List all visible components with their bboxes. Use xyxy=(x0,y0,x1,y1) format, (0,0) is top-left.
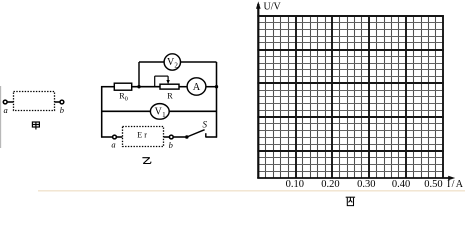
svg-text:U/V: U/V xyxy=(264,1,282,12)
svg-text:b: b xyxy=(60,105,64,115)
svg-text:r: r xyxy=(144,131,147,140)
label 乙 (CJK glyph drawn as path) xyxy=(142,158,151,164)
svg-text:E: E xyxy=(137,131,142,140)
y axis arrowhead xyxy=(256,1,261,8)
svg-text:R: R xyxy=(167,91,173,100)
voltmeter V1 xyxy=(150,104,169,120)
resistor R0 xyxy=(114,83,131,90)
x axis arrowhead xyxy=(448,176,455,181)
wire terminal b to switch xyxy=(173,136,185,138)
wire V2 branch: horizontal to V2 xyxy=(139,61,164,63)
grid minor lines xyxy=(266,16,436,179)
svg-text:0: 0 xyxy=(125,95,128,102)
svg-text:a: a xyxy=(111,140,115,150)
svg-text:0.30: 0.30 xyxy=(357,179,375,190)
wire bottom row: left vertical to terminal a xyxy=(101,136,113,138)
label 甲 (CJK glyph drawn as path) xyxy=(32,122,39,130)
wire R0 to rheostat xyxy=(132,86,160,88)
svg-text:0.20: 0.20 xyxy=(321,179,339,190)
terminal b of battery box xyxy=(169,135,173,139)
terminal a of battery box xyxy=(113,135,117,139)
wire main row: left vertical to R0 xyxy=(101,86,114,88)
wire switch to right vertical xyxy=(206,136,217,138)
voltmeter V2 xyxy=(164,54,180,70)
rheostat slider arm xyxy=(155,76,168,87)
svg-text:I/A: I/A xyxy=(447,179,464,190)
wire V2 to right vertical xyxy=(181,61,217,63)
svg-text:0.40: 0.40 xyxy=(392,179,410,190)
terminal a (left) xyxy=(3,100,13,104)
battery dashed box E r xyxy=(123,127,164,147)
wire ammeter to right vertical xyxy=(206,86,217,88)
wire V1 row left xyxy=(102,110,151,112)
scan artifact left edge line xyxy=(0,86,2,148)
svg-text:1: 1 xyxy=(162,111,166,119)
label 丙 (CJK glyph drawn as path) xyxy=(346,197,355,205)
svg-text:0.50: 0.50 xyxy=(424,179,442,190)
svg-text:A: A xyxy=(193,82,201,93)
svg-text:2: 2 xyxy=(174,62,178,70)
wire right vertical xyxy=(216,62,218,138)
junction node right xyxy=(215,85,218,88)
dashed box (black box component) xyxy=(14,92,55,111)
rheostat slider arrowhead xyxy=(166,80,169,84)
switch S blade xyxy=(187,130,205,137)
wire V1 row right xyxy=(169,110,216,112)
junction node after R0 xyxy=(137,85,140,88)
wire battery box to terminal b xyxy=(164,136,170,138)
svg-text:a: a xyxy=(3,105,7,115)
rheostat R box xyxy=(160,84,179,89)
svg-text:S: S xyxy=(202,120,207,130)
wire rheostat to ammeter xyxy=(179,86,187,88)
ammeter A xyxy=(187,78,206,95)
switch S pivot xyxy=(185,135,189,139)
grid major lines xyxy=(257,15,443,178)
svg-text:0.10: 0.10 xyxy=(286,179,304,190)
svg-text:b: b xyxy=(169,140,173,150)
terminal b (right) xyxy=(55,100,64,104)
x axis I xyxy=(257,177,450,179)
wire V2 branch: up from junction xyxy=(138,62,140,87)
scan artifact bottom beige line xyxy=(38,190,465,192)
wire terminal a to battery box xyxy=(116,136,122,138)
y axis U xyxy=(257,4,259,178)
wire left vertical xyxy=(101,86,103,138)
switch right contact xyxy=(205,133,207,137)
